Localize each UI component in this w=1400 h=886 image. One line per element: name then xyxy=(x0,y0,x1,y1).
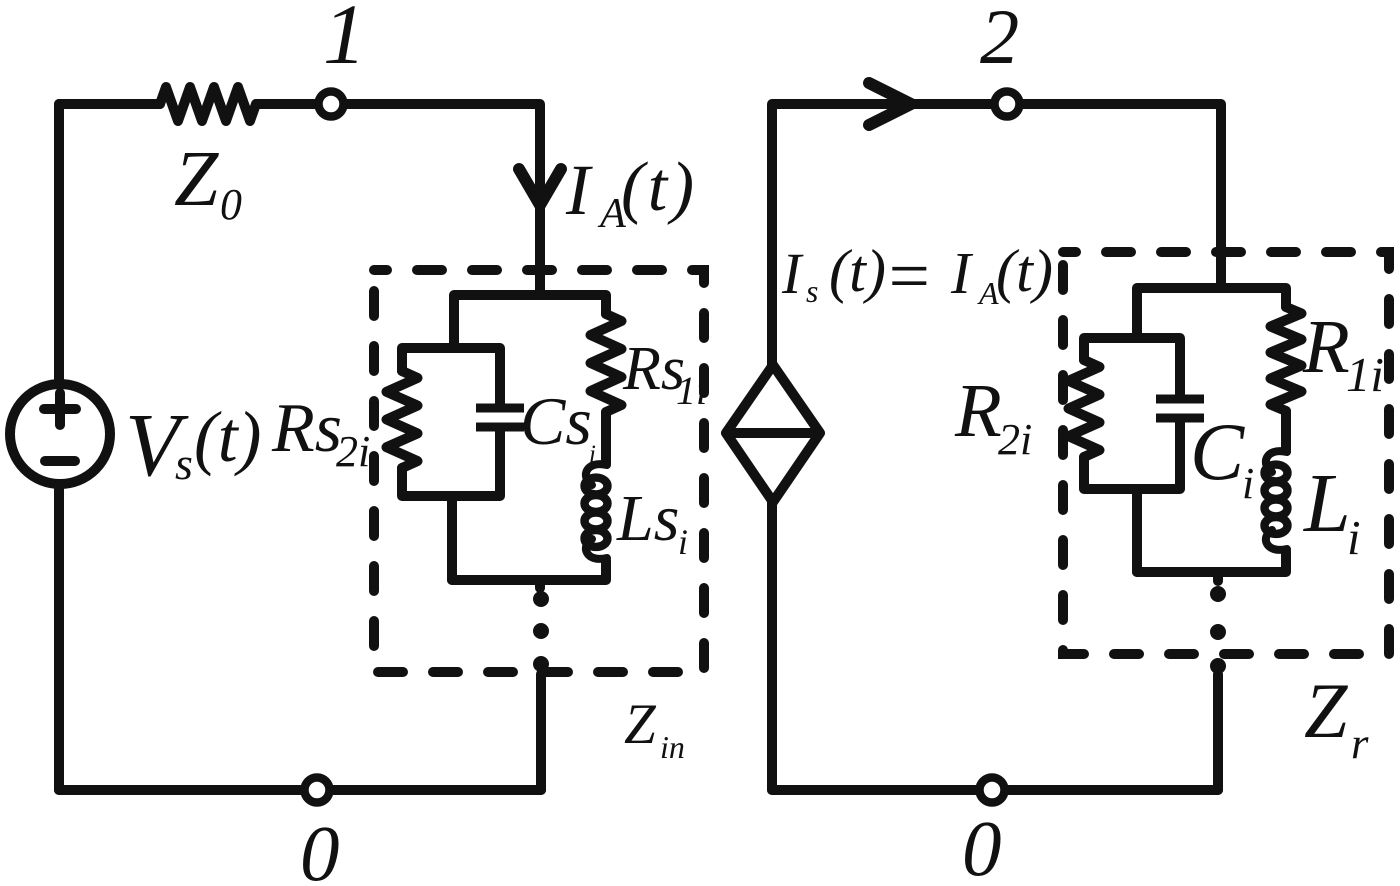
svg-text:0: 0 xyxy=(962,806,1002,886)
wire: inner top bar of Zin network xyxy=(454,295,606,348)
dependent current source IS diamond xyxy=(726,365,820,502)
wire: Rs1i to Ls coil xyxy=(601,412,611,463)
svg-text:2i: 2i xyxy=(336,427,370,476)
svg-text:Cs: Cs xyxy=(520,383,592,459)
svg-text:0: 0 xyxy=(220,181,242,229)
node 0 terminal circle (right) xyxy=(980,778,1005,803)
svg-text:I: I xyxy=(781,241,804,306)
svg-text:Ls: Ls xyxy=(616,482,679,555)
wire: from Z0 to node 1 xyxy=(256,99,316,109)
wire: from Zin box bottom down to bottom rail xyxy=(536,674,546,790)
dashed box Zr xyxy=(1063,252,1389,654)
wire: from node 1 to top-right corner of left loop xyxy=(346,104,540,295)
svg-text:r: r xyxy=(1351,718,1369,768)
node 2 terminal circle xyxy=(995,92,1020,117)
svg-text:2i: 2i xyxy=(998,415,1032,464)
capacitor Cs plate bottom xyxy=(476,423,524,432)
wire: center stub from sub-network to inner bottom bar xyxy=(447,496,457,580)
wire: R1i to L coil xyxy=(1281,411,1291,450)
wire: R2i bottom lead xyxy=(1084,423,1180,489)
resistor Rs2i xyxy=(387,371,418,468)
wire: dependent source bottom lead xyxy=(767,502,777,790)
resistor Z0 xyxy=(160,87,256,121)
wire: left vertical from top-left corner down to Vs + terminal xyxy=(54,104,64,384)
wire: left vertical from Vs - terminal down to bottom rail xyxy=(54,484,64,790)
svg-text:I: I xyxy=(950,240,974,306)
dependent source diamond midline xyxy=(726,428,820,438)
wire: stub below inner bottom bar xyxy=(1213,572,1223,581)
wire: sub-network top bar (Rs2i / Cs parallel) xyxy=(402,348,500,404)
wire: inner bottom bar of Zr network xyxy=(1137,551,1286,572)
svg-text:Z: Z xyxy=(624,693,657,756)
inductor L i xyxy=(1266,451,1287,472)
svg-text:i: i xyxy=(678,522,688,562)
wire: top-left horizontal to resistor Z0 xyxy=(59,99,160,109)
resistor Rs1i xyxy=(591,314,622,412)
resistor R1i xyxy=(1271,307,1302,411)
wire: from Zr box bottom down to bottom rail xyxy=(1213,674,1223,790)
wire: node 2 to top-right corner down into Zr box xyxy=(1022,104,1221,288)
svg-text:Rs: Rs xyxy=(271,390,342,467)
wire: inner top bar of Zr network xyxy=(1137,288,1286,338)
svg-text:Z: Z xyxy=(1304,667,1349,754)
svg-text:1: 1 xyxy=(323,0,366,82)
current direction arrow on top wire xyxy=(869,83,911,125)
svg-text:C: C xyxy=(1190,407,1245,497)
wire: center stub from sub-network to inner bottom bar xyxy=(1132,489,1142,572)
wire: bottom rail right circuit xyxy=(772,785,1218,795)
voltage source VS circle xyxy=(10,384,110,484)
svg-text:i: i xyxy=(1242,459,1254,508)
svg-text:(t): (t) xyxy=(194,398,262,477)
wire: Rs2i bottom lead xyxy=(402,431,500,496)
svg-text:(t): (t) xyxy=(996,238,1053,305)
VS minus sign xyxy=(45,456,75,466)
svg-text:(t): (t) xyxy=(621,149,694,226)
wire: stub below inner bottom bar xyxy=(535,580,545,588)
inductor Ls i xyxy=(586,464,607,485)
svg-text:2: 2 xyxy=(980,0,1019,80)
svg-text:s: s xyxy=(806,274,818,309)
svg-text:1i: 1i xyxy=(1346,348,1384,402)
svg-text:L: L xyxy=(1303,457,1351,550)
svg-text:R: R xyxy=(954,368,1002,453)
svg-text:1i: 1i xyxy=(676,368,707,413)
node 1 terminal circle xyxy=(319,92,344,117)
ellipsis dots inside Zr xyxy=(1210,586,1226,602)
svg-text:Z: Z xyxy=(174,135,219,223)
VS plus sign xyxy=(44,404,76,414)
svg-text:i: i xyxy=(1347,511,1361,565)
svg-text:(t): (t) xyxy=(829,238,886,305)
current arrow IA (downward chevron) xyxy=(519,169,561,205)
svg-text:s: s xyxy=(175,438,193,489)
svg-text:I: I xyxy=(565,150,593,230)
svg-text:in: in xyxy=(660,729,685,765)
node 0 terminal circle (left) xyxy=(305,778,330,803)
wire: dependent source top lead up and across to node 2 xyxy=(772,104,992,365)
svg-text:R: R xyxy=(1302,304,1350,389)
svg-text:=: = xyxy=(884,235,933,316)
ellipsis dots inside Zin xyxy=(533,591,549,607)
capacitor C plate bottom xyxy=(1156,414,1204,423)
wire: inner bottom bar of Zin network xyxy=(452,560,606,580)
capacitor C plate top xyxy=(1156,395,1204,404)
wire: sub-network top bar (R2i / C parallel) xyxy=(1084,338,1180,396)
wire: bottom rail left circuit xyxy=(59,785,541,795)
resistor R2i xyxy=(1069,360,1100,457)
dashed box Zin xyxy=(374,270,704,672)
svg-text:0: 0 xyxy=(300,811,340,886)
capacitor Cs plate top xyxy=(476,404,524,413)
